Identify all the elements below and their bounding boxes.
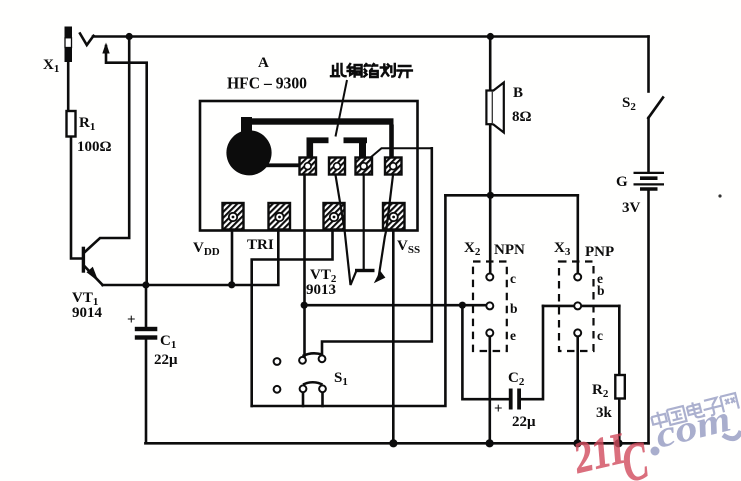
svg-text:R1: R1 bbox=[79, 115, 95, 133]
svg-text:3k: 3k bbox=[596, 405, 613, 421]
svg-text:PNP: PNP bbox=[585, 244, 614, 260]
svg-text:com: com bbox=[651, 399, 735, 457]
svg-text:b: b bbox=[510, 301, 518, 316]
svg-text:3V: 3V bbox=[622, 200, 641, 216]
svg-text:R2: R2 bbox=[592, 382, 609, 400]
svg-text:X2: X2 bbox=[464, 240, 481, 258]
svg-text:C2: C2 bbox=[508, 370, 525, 388]
svg-text:9013: 9013 bbox=[306, 282, 336, 298]
svg-text:HFC – 9300: HFC – 9300 bbox=[227, 74, 307, 93]
svg-text:NPN: NPN bbox=[494, 242, 525, 258]
svg-text:S1: S1 bbox=[334, 370, 348, 388]
svg-text:C1: C1 bbox=[160, 333, 176, 351]
svg-text:c: c bbox=[510, 271, 516, 286]
svg-text:B: B bbox=[513, 85, 523, 101]
svg-text:VSS: VSS bbox=[397, 238, 420, 256]
svg-text:G: G bbox=[616, 174, 628, 190]
svg-text:c: c bbox=[597, 328, 603, 343]
svg-text:X3: X3 bbox=[554, 240, 571, 258]
svg-text:X1: X1 bbox=[43, 57, 59, 75]
svg-text:22μ: 22μ bbox=[154, 352, 178, 368]
svg-text:TRI: TRI bbox=[247, 237, 274, 253]
svg-text:+: + bbox=[127, 312, 136, 328]
svg-text:A: A bbox=[258, 55, 269, 71]
svg-text:VDD: VDD bbox=[193, 240, 220, 258]
svg-text:22μ: 22μ bbox=[512, 414, 536, 430]
svg-text:100Ω: 100Ω bbox=[77, 139, 112, 155]
svg-text:S2: S2 bbox=[622, 95, 636, 113]
svg-text:b: b bbox=[597, 283, 605, 298]
svg-text:+: + bbox=[494, 401, 503, 417]
svg-text:e: e bbox=[510, 328, 516, 343]
svg-text:9014: 9014 bbox=[72, 305, 103, 321]
svg-text:8Ω: 8Ω bbox=[512, 109, 532, 125]
